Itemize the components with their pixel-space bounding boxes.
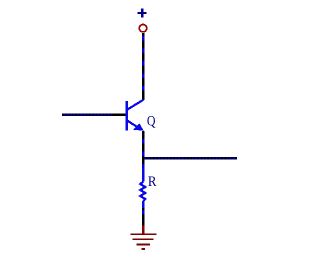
svg-text:R: R <box>148 174 157 190</box>
resistor R1 <box>140 168 145 208</box>
base wire <box>62 114 125 117</box>
label R <box>148 174 157 190</box>
emitter wire to node <box>142 131 144 171</box>
V+ terminal circle <box>139 24 147 32</box>
svg-text:Q: Q <box>147 114 156 130</box>
output wire <box>143 157 237 160</box>
V+ plus symbol <box>138 8 147 17</box>
wire resistor to ground <box>142 208 144 226</box>
transistor Q1 <box>127 100 144 131</box>
ground <box>130 226 156 250</box>
wire V+ terminal to collector <box>142 33 144 100</box>
label Q <box>147 114 156 130</box>
